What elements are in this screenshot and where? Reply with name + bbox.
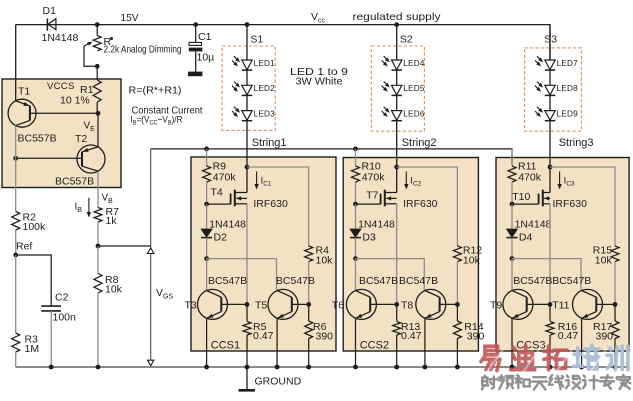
transistor T6 BC547B (NPN) <box>346 289 376 319</box>
wire D3 node to T8 collector <box>356 259 425 291</box>
junction dot rail/R* <box>95 22 100 27</box>
CCS2 block box <box>343 158 478 352</box>
mosfet T10 IRF630 <box>512 203 539 205</box>
svg-text:T2: T2 <box>75 133 87 145</box>
current arrow Ic CCS2 <box>405 172 407 186</box>
svg-text:1M: 1M <box>25 343 40 355</box>
svg-text:Ref: Ref <box>16 241 32 253</box>
wire T5 emitter to bus <box>276 318 278 367</box>
junction dot drain CCS2 <box>394 165 399 170</box>
resistor R8 10k <box>94 274 102 294</box>
svg-text:0.47: 0.47 <box>253 330 274 342</box>
ground symbol <box>246 367 248 390</box>
resistor R17 390 <box>614 304 616 321</box>
resistor R6 390 <box>308 304 310 321</box>
svg-text:LED6: LED6 <box>403 109 425 118</box>
wire LED string S3 <box>549 25 551 193</box>
current arrow Ic CCS3 <box>559 172 561 186</box>
svg-text:CCS1: CCS1 <box>211 340 240 352</box>
svg-text:1N4148: 1N4148 <box>515 219 552 231</box>
svg-text:470k: 470k <box>362 172 386 184</box>
svg-text:10k: 10k <box>463 255 481 267</box>
resistor R4 10k <box>305 246 313 262</box>
junction dot gate feed / R9 <box>204 147 209 152</box>
diode D2 1N4148 <box>206 204 208 229</box>
node Ref junction dot <box>13 253 18 258</box>
svg-text:BC547B: BC547B <box>359 275 398 287</box>
wire rail to C1 <box>195 25 197 43</box>
junction dot R16/bus <box>548 365 553 370</box>
svg-text:390: 390 <box>316 330 334 342</box>
svg-text:T5: T5 <box>255 300 267 312</box>
svg-text:IRF630: IRF630 <box>253 198 288 210</box>
dashed box LED string S1 <box>222 46 275 130</box>
svg-text:T6: T6 <box>332 300 344 312</box>
svg-text:BC547B: BC547B <box>513 275 552 287</box>
wire R1 to VE node <box>96 102 98 113</box>
svg-text:0.47: 0.47 <box>558 330 579 342</box>
LED LED2 <box>242 85 252 95</box>
transistor T1 BC557B (PNP) <box>8 99 36 127</box>
junction dot D2 cathode node <box>204 256 209 261</box>
LED LED7 <box>545 60 555 70</box>
svg-text:BC547B: BC547B <box>276 275 315 287</box>
resistor R11 470k <box>508 166 516 182</box>
junction dot D4 cathode node <box>510 256 515 261</box>
svg-text:1k: 1k <box>106 215 118 227</box>
wire D4 node to T11 collector <box>512 259 581 291</box>
junction dot R5/bus <box>245 365 250 370</box>
svg-text:100n: 100n <box>53 312 77 324</box>
wire: 15V / Vcc top supply rail <box>16 25 550 60</box>
svg-text:S3: S3 <box>544 34 557 46</box>
wire R* to R1 <box>96 66 98 80</box>
junction dot rail/C1 <box>193 22 198 27</box>
wire Ref to R3 <box>15 255 17 333</box>
svg-text:T11: T11 <box>552 300 569 312</box>
svg-text:C1: C1 <box>198 31 212 43</box>
transistor T5 BC547B (NPN) <box>268 289 298 319</box>
wire T1 collector down left rail <box>15 126 17 212</box>
junction dot base T9 node <box>548 302 553 307</box>
svg-text:15V: 15V <box>121 12 139 24</box>
wire T8 emitter to bus <box>424 318 426 367</box>
wire T6 emitter to bus <box>355 318 357 367</box>
watermark character pei (blue) <box>574 345 599 369</box>
wire mosfet source to base node <box>549 204 551 305</box>
wire LED string S1 <box>246 25 248 193</box>
gate feed wire to CCS blocks <box>151 149 512 165</box>
junction dot base T5 node <box>306 302 311 307</box>
wire Ref to C2 <box>16 255 52 306</box>
watermark character xun (blue) <box>607 346 628 369</box>
junction dot rail/S1 <box>245 22 250 27</box>
svg-text:LED3: LED3 <box>254 109 276 118</box>
resistor R15 10k <box>611 246 619 262</box>
junction dot C2/bus <box>49 365 54 370</box>
svg-text:T3: T3 <box>185 300 197 312</box>
VGS annotation arrow bottom <box>148 360 154 366</box>
svg-text:IRF630: IRF630 <box>403 198 438 210</box>
wire VGS vertical / gate feed <box>150 149 152 365</box>
svg-text:String1: String1 <box>252 137 287 149</box>
svg-text:BC547B: BC547B <box>552 275 591 287</box>
svg-text:T9: T9 <box>490 300 502 312</box>
junction dot base T3 node <box>245 302 250 307</box>
resistor R13 0.47 <box>396 304 398 321</box>
junction dot drain CCS1 <box>245 165 250 170</box>
svg-text:100k: 100k <box>23 221 47 233</box>
wire D4 node to T9 collector <box>511 259 513 291</box>
diode D1 <box>46 18 48 30</box>
junction dot gate node <box>204 202 209 207</box>
transistor T3 BC547B (NPN) <box>198 289 228 319</box>
junction dot T11 emitter/bus <box>579 365 584 370</box>
resistor R10 470k <box>352 166 360 182</box>
LED LED4 <box>392 60 402 70</box>
capacitor C1 10u <box>189 42 202 45</box>
LED LED3 <box>242 111 252 121</box>
watermark character di (red) <box>511 346 535 370</box>
wire D2 node to T3 collector <box>206 259 208 291</box>
svg-text:LED7: LED7 <box>557 59 579 68</box>
VCCS block box <box>2 79 121 188</box>
wire C2 to bus <box>50 311 52 367</box>
resistor R16 0.47 <box>549 304 551 321</box>
svg-text:regulated supply: regulated supply <box>353 11 442 23</box>
LED LED5 <box>392 85 402 95</box>
svg-text:T10: T10 <box>512 191 530 203</box>
LED LED1 <box>242 60 252 70</box>
svg-text:470k: 470k <box>213 172 237 184</box>
svg-text:390: 390 <box>596 330 614 342</box>
CCS3 block box <box>496 158 629 352</box>
wire D2 node to T5 collector <box>207 259 277 291</box>
svg-text:470k: 470k <box>518 172 542 184</box>
node VE junction dot <box>96 111 101 116</box>
wire T2 collector to R7 <box>97 171 99 207</box>
potentiometer R* 2.2k <box>93 36 101 51</box>
svg-text:LED5: LED5 <box>403 84 425 93</box>
junction dot base T8 node <box>455 302 460 307</box>
resistor R7 1k <box>94 208 102 222</box>
svg-text:R=(R*+R1): R=(R*+R1) <box>129 85 182 97</box>
wire VE to T2 emitter <box>97 113 99 147</box>
junction dot R8/bus <box>96 365 101 370</box>
svg-text:2.2k Analog Dimming: 2.2k Analog Dimming <box>104 44 182 55</box>
wire R10 to gate node <box>355 182 357 204</box>
watermark gloss streaks <box>487 344 610 372</box>
dashed box LED string S2 <box>371 46 424 131</box>
junction dot drain CCS3 <box>548 165 553 170</box>
wire feed to R9 <box>206 149 208 166</box>
svg-text:String3: String3 <box>559 137 594 149</box>
wire drain node to R12 <box>397 167 458 246</box>
LED LED9 <box>545 111 555 121</box>
svg-text:10k: 10k <box>105 284 123 296</box>
svg-text:10µ: 10µ <box>197 52 215 64</box>
svg-text:D3: D3 <box>362 232 376 244</box>
wire R11 to gate node <box>511 182 513 204</box>
wire D3 node to T6 collector <box>355 259 357 291</box>
wire T3 emitter to bus <box>206 318 208 367</box>
junction dot gate node <box>353 202 358 207</box>
svg-text:VCCS: VCCS <box>47 81 75 92</box>
svg-text:D4: D4 <box>519 232 533 244</box>
svg-text:D2: D2 <box>214 232 228 244</box>
junction dot R7/R8 <box>96 244 101 249</box>
svg-text:1N4148: 1N4148 <box>209 219 246 231</box>
svg-text:0.47: 0.47 <box>401 330 422 342</box>
svg-text:BC557B: BC557B <box>18 133 57 145</box>
watermark character yi (red) <box>481 346 500 371</box>
current arrow IB <box>88 198 90 213</box>
svg-text:10k: 10k <box>595 255 613 267</box>
svg-text:S2: S2 <box>400 34 413 46</box>
svg-text:T4: T4 <box>211 187 223 199</box>
ground bus wire <box>16 366 629 368</box>
wire T11 emitter to bus <box>581 318 583 367</box>
junction dot D3 cathode node <box>353 256 358 261</box>
current arrow Ic CCS1 <box>256 172 258 186</box>
svg-text:CCS2: CCS2 <box>360 340 389 352</box>
wire R8 to bus <box>97 246 99 274</box>
resistor R9 470k <box>203 166 211 182</box>
transistor T11 BC547B (NPN) <box>573 289 603 319</box>
svg-text:GROUND: GROUND <box>255 376 302 388</box>
junction dot R17/bus <box>613 365 618 370</box>
svg-text:LED4: LED4 <box>403 59 425 68</box>
svg-text:1N4148: 1N4148 <box>42 32 79 44</box>
mosfet T7 IRF630 <box>356 203 381 205</box>
transistor T9 BC547B (NPN) <box>503 289 533 319</box>
svg-text:BC547B: BC547B <box>399 275 438 287</box>
junction dot T3 emitter/bus <box>204 365 209 370</box>
svg-text:BC557B: BC557B <box>55 176 94 188</box>
svg-text:1N4148: 1N4148 <box>358 219 395 231</box>
svg-text:LED9: LED9 <box>557 109 579 118</box>
dashed box LED string S3 <box>525 48 582 131</box>
C1 ground bar <box>188 72 202 77</box>
junction dot gate node <box>510 202 515 207</box>
transistor T8 BC547B (NPN) <box>416 289 446 319</box>
wire mosfet source to base node <box>396 204 398 305</box>
mosfet T4 IRF630 <box>207 203 231 205</box>
wire drain node to R15 <box>550 167 615 246</box>
diode D3 1N4148 <box>355 204 357 229</box>
wire feed to R11 <box>511 149 513 166</box>
svg-text:C2: C2 <box>55 292 69 304</box>
svg-text:390: 390 <box>467 330 485 342</box>
wire feed to R10 <box>355 149 357 166</box>
svg-text:LED2: LED2 <box>254 84 276 93</box>
wire R15 to base node <box>614 262 616 305</box>
capacitor C2 100n <box>41 305 61 307</box>
resistor R1 10 1% <box>93 80 101 102</box>
wire LED string S2 <box>396 25 398 193</box>
junction dot rail/S2 <box>394 22 399 27</box>
svg-text:String2: String2 <box>402 137 437 149</box>
svg-text:T8: T8 <box>401 300 413 312</box>
resistor R12 10k <box>453 246 461 262</box>
transistor T2 BC557B (PNP) <box>77 145 105 173</box>
wire drain node to R4 <box>247 167 309 246</box>
svg-text:LED8: LED8 <box>557 84 579 93</box>
junction dot R* wiper <box>95 64 100 69</box>
resistor R3 1M <box>12 333 20 352</box>
LED LED6 <box>392 111 402 121</box>
junction dot T5 emitter/bus <box>275 365 280 370</box>
wire R7 to junction <box>97 222 99 246</box>
watermark row2 tagline (grey) <box>482 376 497 390</box>
svg-text:T7: T7 <box>366 190 378 202</box>
wire R2 to Ref <box>15 230 17 255</box>
svg-text:3W White: 3W White <box>296 76 343 88</box>
CCS1 block box <box>191 157 336 351</box>
junction dot T6 emitter/bus <box>353 365 358 370</box>
resistor R14 390 <box>456 304 458 321</box>
R* wiper arrow and wire <box>84 46 97 66</box>
svg-text:10 1%: 10 1% <box>60 95 90 107</box>
wire R3 to bus <box>15 352 17 367</box>
svg-text:10k: 10k <box>316 255 334 267</box>
wire mosfet source to base node <box>246 204 248 305</box>
wire R4 to base node <box>308 262 310 305</box>
junction dot gate feed / R10 <box>353 147 358 152</box>
wire T9 emitter to bus <box>511 318 513 367</box>
wire: left rail down to T1 emitter <box>15 25 17 101</box>
svg-text:LED1: LED1 <box>254 59 276 68</box>
wire R12 to base node <box>456 262 458 305</box>
junction dot base T6 node <box>394 302 399 307</box>
junction dot R14/bus <box>455 365 460 370</box>
junction dot T2 base / left rail <box>13 156 18 161</box>
svg-text:T1: T1 <box>18 86 30 98</box>
VGS annotation arrow top <box>148 248 154 254</box>
junction dot T9 emitter/bus <box>510 365 515 370</box>
wire R9 to gate node <box>206 182 208 204</box>
resistor R2 100k <box>12 212 20 231</box>
junction dot R6/bus <box>306 365 311 370</box>
svg-text:BC547B: BC547B <box>208 275 247 287</box>
svg-text:D1: D1 <box>43 5 57 17</box>
wire rail to R* <box>96 25 98 36</box>
junction dot T8 emitter/bus <box>423 365 428 370</box>
resistor R5 0.47 <box>246 304 248 321</box>
diode D4 1N4148 <box>511 204 513 229</box>
watermark character tuo (red) <box>544 346 567 369</box>
junction dot base T11 node <box>613 302 618 307</box>
LED LED8 <box>545 85 555 95</box>
junction dot R13/bus <box>394 365 399 370</box>
svg-text:IRF630: IRF630 <box>553 198 588 210</box>
svg-text:S1: S1 <box>250 34 263 46</box>
wire junction to VGS line <box>98 245 151 247</box>
